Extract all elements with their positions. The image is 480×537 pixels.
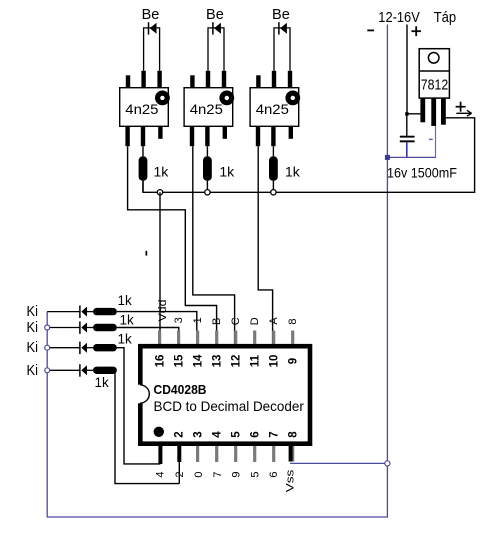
svg-text:Vdd: Vdd: [157, 300, 169, 322]
svg-text:Ki: Ki: [27, 363, 39, 379]
svg-text:A: A: [268, 317, 280, 325]
svg-text:15: 15: [174, 354, 186, 367]
svg-text:5: 5: [249, 471, 261, 477]
svg-text:C: C: [230, 317, 242, 325]
svg-text:7: 7: [212, 471, 224, 477]
svg-text:6: 6: [268, 471, 280, 477]
svg-text:5: 5: [231, 431, 243, 438]
svg-text:7812: 7812: [421, 78, 448, 94]
svg-text:2: 2: [174, 431, 186, 437]
svg-text:1k: 1k: [285, 164, 301, 180]
svg-text:D: D: [249, 317, 261, 325]
svg-text:1: 1: [192, 317, 204, 323]
svg-text:9: 9: [231, 471, 243, 477]
svg-text:B: B: [211, 318, 223, 325]
svg-text:Ki: Ki: [27, 304, 39, 320]
svg-text:7: 7: [269, 431, 281, 437]
svg-text:Táp: Táp: [434, 10, 457, 26]
svg-text:16v 1500mF: 16v 1500mF: [387, 165, 457, 181]
svg-text:2: 2: [174, 471, 186, 477]
svg-text:Ki: Ki: [27, 320, 39, 336]
svg-text:12-16V: 12-16V: [378, 10, 420, 26]
svg-text:BCD to Decimal Decoder: BCD to Decimal Decoder: [154, 398, 305, 414]
svg-text:8: 8: [287, 318, 299, 324]
svg-text:CD4028B: CD4028B: [154, 383, 207, 397]
svg-text:Vss: Vss: [284, 469, 296, 492]
svg-text:1k: 1k: [118, 293, 133, 308]
svg-text:4: 4: [154, 471, 166, 477]
svg-text:Ki: Ki: [27, 340, 39, 356]
svg-text:1k: 1k: [154, 164, 170, 180]
svg-text:16: 16: [155, 355, 167, 368]
svg-text:12: 12: [231, 355, 243, 368]
svg-text:3: 3: [193, 431, 205, 437]
svg-text:13: 13: [212, 355, 224, 368]
svg-text:4: 4: [212, 431, 224, 438]
svg-text:1k: 1k: [219, 164, 235, 180]
svg-text:11: 11: [250, 354, 262, 367]
svg-text:3: 3: [173, 317, 185, 323]
svg-text:0: 0: [193, 471, 205, 477]
svg-text:14: 14: [193, 354, 205, 367]
svg-text:1k: 1k: [120, 313, 135, 328]
svg-text:9: 9: [288, 358, 300, 364]
svg-text:1k: 1k: [118, 332, 133, 347]
svg-text:6: 6: [250, 431, 262, 437]
svg-text:1k: 1k: [95, 375, 110, 390]
svg-text:8: 8: [288, 431, 300, 438]
svg-text:10: 10: [269, 355, 281, 368]
